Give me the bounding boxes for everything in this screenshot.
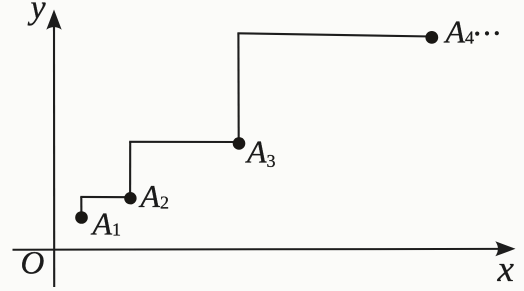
point A2 xyxy=(124,192,136,204)
x-axis xyxy=(13,248,501,251)
wire: step 3 tread to A4 xyxy=(237,33,431,36)
svg-text:y: y xyxy=(28,0,47,27)
wire: step 2 tread to A3 xyxy=(129,141,239,143)
x-axis arrowhead xyxy=(495,241,515,256)
svg-text:O: O xyxy=(21,246,45,282)
point A4 xyxy=(425,31,438,44)
point A1 xyxy=(75,211,88,224)
ellipsis dots after A4 xyxy=(475,31,479,35)
point A3 xyxy=(233,137,246,150)
y-axis xyxy=(53,26,55,287)
wire: riser from A3 up to step 3 xyxy=(237,33,239,142)
wire: step 1 tread to A2 xyxy=(80,196,130,198)
wire: riser from A2 up to step 2 xyxy=(129,142,131,197)
y-axis arrowhead xyxy=(46,10,61,30)
wire: riser from A1 up to step 1 xyxy=(80,197,82,218)
svg-text:x: x xyxy=(497,249,515,290)
